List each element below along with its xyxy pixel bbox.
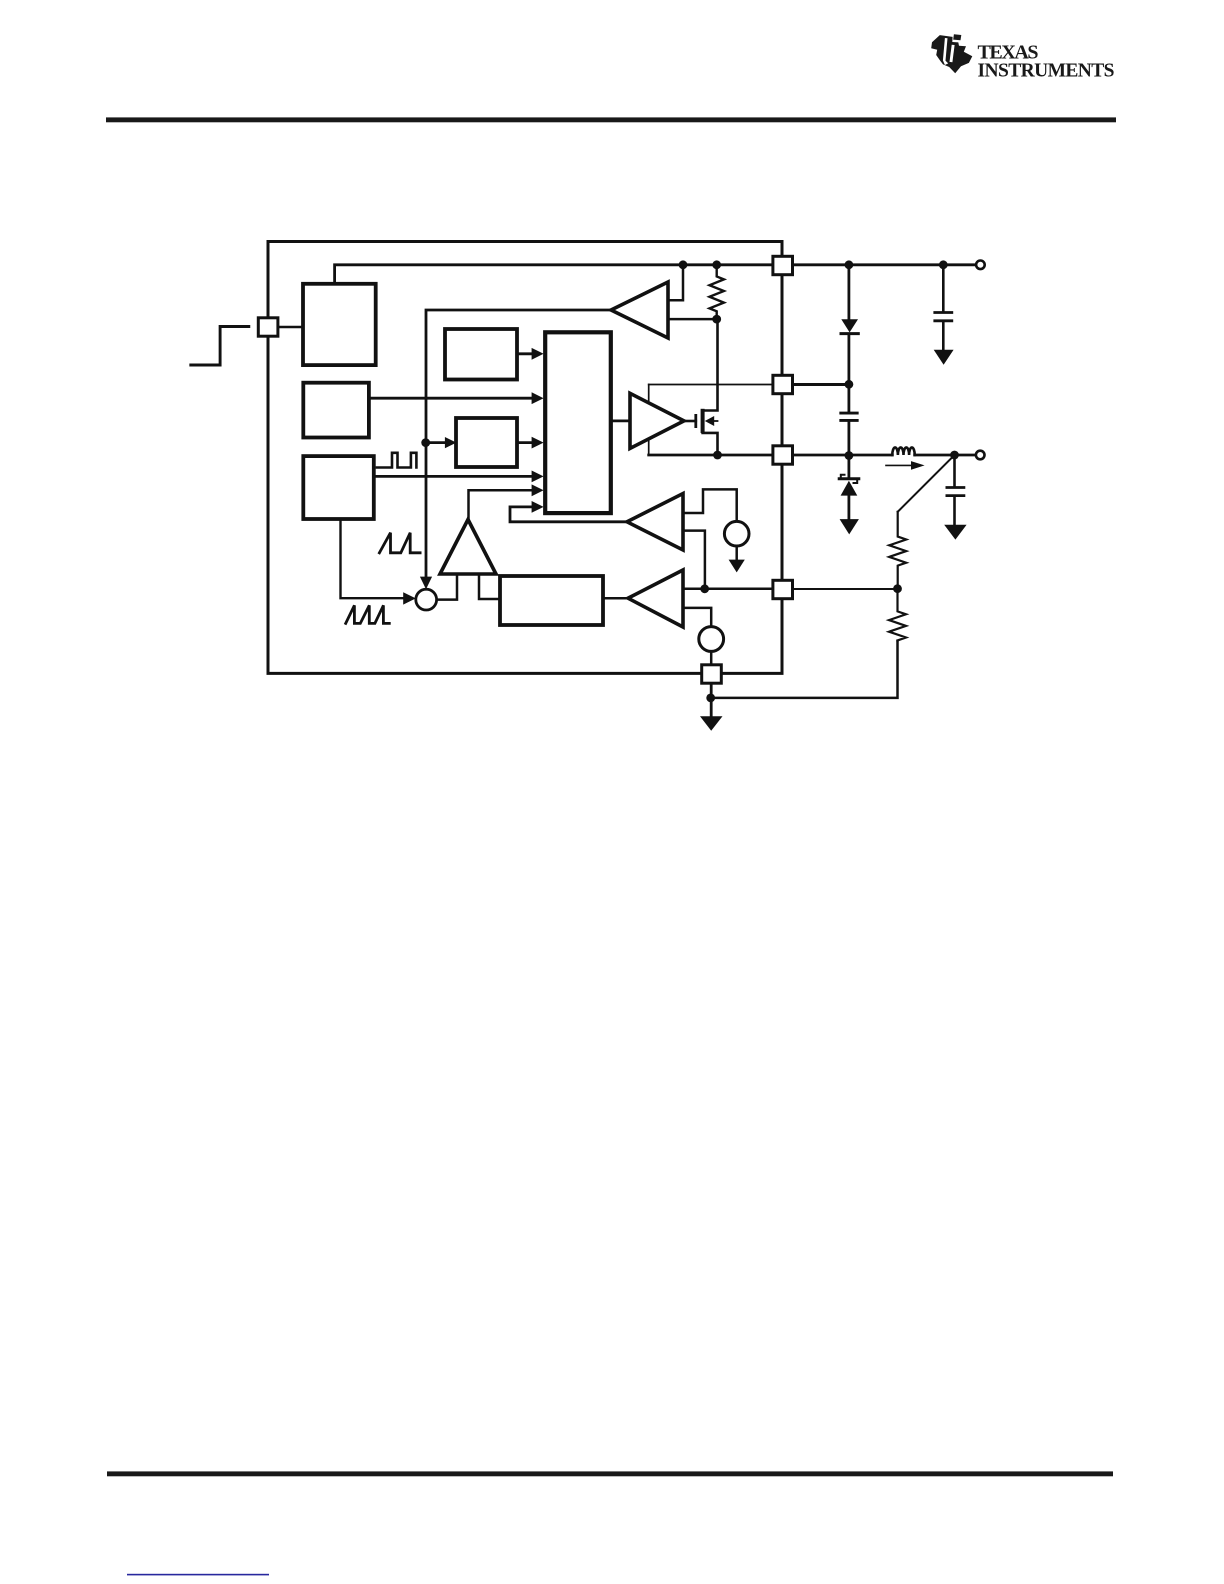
- ground return line: [711, 641, 898, 698]
- pulse waveform: [377, 453, 417, 468]
- header rule: [106, 117, 1116, 122]
- T1 error amp: [611, 282, 668, 338]
- inductor coil: [892, 447, 914, 455]
- ref circle: [699, 627, 724, 652]
- MOSFET source path: [703, 433, 718, 455]
- ref to pin5: [710, 651, 713, 664]
- schottky stem: [848, 455, 851, 477]
- block 1: [303, 284, 376, 365]
- diode bar: [841, 332, 858, 335]
- block B output arrow: [517, 441, 532, 444]
- MOSFET gate bar: [694, 414, 697, 428]
- IC boundary box: [268, 242, 782, 674]
- schottky lower stem: [848, 496, 851, 520]
- diode stem top: [848, 265, 851, 320]
- block 3 output arrow: [374, 475, 532, 478]
- white-filled components drawn over wires: [258, 256, 984, 683]
- ground arrow below output cap: [944, 525, 966, 540]
- R2 zigzag: [889, 589, 906, 641]
- junction node VIN/input cap: [939, 260, 948, 269]
- ground arrow below vin cap: [934, 350, 954, 365]
- top diode triangle: [841, 319, 858, 332]
- comp2 output to central block: [510, 507, 627, 522]
- central block to driver: [611, 419, 630, 422]
- driver supply vertical (under triangle): [648, 385, 650, 456]
- terminal VOUT: [976, 451, 985, 460]
- boot cap stem + plates: [848, 385, 851, 412]
- junction node FB divider tap: [893, 584, 902, 593]
- pin EN (left edge): [258, 318, 278, 336]
- current source arrowhead: [729, 560, 745, 573]
- junction node error feedback / block input: [421, 438, 430, 447]
- vin cap: [942, 265, 945, 312]
- svg-text:INSTRUMENTS: INSTRUMENTS: [978, 61, 1115, 82]
- MOSFET body arrow line: [712, 420, 718, 422]
- diode stem bottom: [848, 335, 851, 384]
- FB internal line: [683, 588, 773, 591]
- junction on VIN rail at sense resistor: [712, 260, 721, 269]
- junction node SW external: [845, 451, 854, 460]
- filled arrowheads & diodes & grounds: [403, 319, 966, 730]
- VBAT internal rail: [335, 265, 773, 284]
- junction node GND: [706, 694, 715, 703]
- upper sawtooth: [379, 533, 420, 553]
- pin GND (bottom edge): [702, 665, 722, 683]
- block A output arrow: [517, 352, 532, 355]
- schottky anode triangle (up): [841, 481, 858, 496]
- junction node sense resistor / amp input: [712, 315, 721, 324]
- block 2 output arrow: [369, 397, 532, 400]
- comp2 bottom input to FB node: [683, 531, 705, 589]
- comp3 bottom input to ref: [683, 608, 711, 627]
- pin2 external line: [793, 383, 849, 386]
- vertical sense node to MOSFET drain: [703, 319, 718, 410]
- junction node VOUT: [950, 451, 959, 460]
- footer link underline: [127, 1574, 269, 1576]
- pin1 external line: [793, 263, 977, 266]
- ground arrow below pin5: [700, 716, 723, 731]
- TI logo Texas map glyph: [931, 34, 972, 73]
- output cap: [953, 455, 956, 486]
- TU apex to central block: [469, 490, 533, 519]
- arrowhead into block B: [445, 437, 457, 448]
- pin VIN (top right): [773, 256, 793, 274]
- ground arrow below schottky: [840, 519, 859, 534]
- terminal VIN: [976, 261, 985, 270]
- central block: [545, 332, 611, 513]
- block B: [456, 418, 517, 467]
- arrowhead into summing circle (right): [403, 592, 416, 604]
- up triangle: [440, 520, 496, 575]
- block 3: [303, 456, 374, 519]
- arrowheads into central block: [532, 348, 544, 360]
- pin5 to ground: [710, 684, 713, 717]
- MOSFET body arrowhead: [705, 416, 714, 426]
- block 2: [303, 383, 369, 438]
- block5 to comp3: [603, 597, 628, 600]
- arrowhead down into summing circle: [420, 577, 432, 590]
- block A: [445, 329, 517, 380]
- gate wire: [684, 420, 696, 423]
- summing circle: [416, 589, 437, 610]
- EN step waveform: [191, 327, 249, 366]
- SW internal line: [649, 454, 773, 457]
- pin BOOT: [773, 375, 793, 393]
- R1 zigzag: [889, 512, 906, 589]
- junction on VIN rail at amp input: [679, 260, 688, 269]
- schottky bar with hooks: [841, 475, 859, 479]
- FB external line: [793, 588, 898, 590]
- comp3: [628, 570, 683, 627]
- current arrow line: [886, 464, 912, 466]
- current source to arrow: [735, 546, 738, 561]
- pin SW: [773, 446, 793, 464]
- block3 bottom stub: [341, 519, 405, 598]
- comp2 top input to current source: [683, 489, 737, 521]
- sense resistor R zigzag: [710, 265, 724, 319]
- boot line pin2: [649, 384, 773, 386]
- block B input arrow line: [426, 441, 448, 444]
- pin3 external line + inductor: [793, 454, 893, 457]
- inductor current arrowhead: [911, 461, 925, 470]
- pin FB: [773, 580, 793, 598]
- junction node BOOT: [845, 380, 854, 389]
- block 5: [500, 576, 603, 625]
- comp2: [627, 494, 683, 551]
- junction node FB internal: [700, 584, 709, 593]
- TU right stub to block5: [479, 574, 500, 599]
- driver triangle: [630, 393, 684, 448]
- current source circle: [724, 521, 749, 546]
- MOSFET channel bar: [701, 409, 705, 433]
- summing circle to TU: [436, 574, 457, 600]
- junction node VIN/diode: [845, 260, 854, 269]
- T1 top input stub: [668, 265, 683, 300]
- divider diagonal: [898, 455, 955, 512]
- feedback line from T1 output: [426, 310, 611, 577]
- footer rule: [107, 1471, 1113, 1476]
- T1 bottom input stub: [668, 318, 717, 321]
- junction node SW internal: [713, 451, 722, 460]
- lower sawtooth: [346, 605, 390, 623]
- EN wire: [278, 326, 303, 328]
